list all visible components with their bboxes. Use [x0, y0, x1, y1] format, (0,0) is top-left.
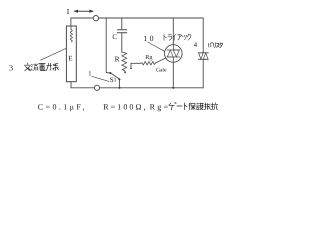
- svg-text:1: 1: [143, 34, 147, 43]
- ッ: [183, 35, 187, 40]
- switch S blade: [111, 73, 119, 78]
- wire top-left from source to terminal A: [71, 18, 93, 26]
- svg-text:1: 1: [114, 78, 117, 84]
- switch S contact dot left: [109, 72, 111, 74]
- 保: [189, 103, 196, 110]
- triac internal symbol: [167, 45, 180, 62]
- イ: [173, 34, 176, 40]
- wire right vertical lower: [202, 60, 204, 88]
- junction triac-bottom wire: [172, 87, 174, 89]
- resistor Rg zigzag: [141, 62, 156, 65]
- node R bottom dot: [124, 72, 126, 74]
- バ: [208, 42, 213, 47]
- gate terminal stub: [131, 63, 141, 67]
- current arrow I: [75, 10, 93, 12]
- ゲ: [169, 103, 176, 110]
- wire switch to bottom: [118, 80, 120, 88]
- 抵: [205, 103, 211, 110]
- ー: [177, 105, 182, 107]
- 系: [53, 63, 59, 70]
- タ: [220, 43, 223, 48]
- switch S contact dot right: [118, 78, 120, 80]
- リ: [214, 43, 216, 48]
- triac gate lead: [156, 58, 166, 63]
- junction switch-bottom wire: [118, 87, 120, 89]
- pointer line label 3 to source: [41, 48, 67, 60]
- ク: [187, 34, 191, 40]
- svg-text:Rg: Rg: [145, 54, 152, 61]
- pointer line label 1 to switch: [92, 76, 109, 81]
- wire triac branch top: [172, 18, 174, 45]
- wire capacitor to resistor: [122, 33, 123, 53]
- wire triac bottom: [172, 62, 174, 88]
- svg-text:I: I: [67, 7, 70, 16]
- svg-text:R: R: [115, 54, 120, 63]
- ac source box: [66, 26, 76, 82]
- svg-text:E: E: [68, 54, 72, 62]
- ト: [184, 103, 187, 110]
- svg-text:R=100Ω,: R=100Ω,: [103, 103, 148, 112]
- 流: [31, 64, 38, 70]
- varistor symbol: [198, 53, 208, 60]
- svg-text:1: 1: [88, 70, 91, 77]
- svg-text:C: C: [112, 33, 117, 41]
- switch S contact nub: [106, 72, 109, 74]
- svg-text:3: 3: [9, 64, 13, 73]
- wire bottom main run: [100, 87, 204, 89]
- 電: [39, 63, 46, 70]
- node B terminal circle: [94, 85, 99, 90]
- svg-text:0: 0: [150, 34, 154, 43]
- wire bottom left from source: [71, 82, 94, 88]
- 力: [46, 63, 51, 70]
- svg-text:C=0.1μF,: C=0.1μF,: [38, 103, 87, 112]
- svg-text:Gate: Gate: [156, 68, 167, 74]
- triac U1 circle: [165, 45, 183, 63]
- ア: [178, 35, 182, 40]
- pointer line label 10 to triac: [148, 42, 165, 51]
- ト: [164, 34, 166, 40]
- 護: [197, 103, 204, 110]
- svg-text:4: 4: [194, 41, 198, 49]
- resistor R zigzag: [122, 52, 127, 72]
- wire switch branch vertical: [105, 18, 107, 72]
- capacitor C plates: [117, 30, 127, 33]
- wire top main run: [99, 17, 204, 19]
- ラ: [168, 35, 172, 41]
- wire C-R branch vertical: [121, 18, 123, 30]
- source internal impedance coil: [70, 26, 72, 42]
- ス: [216, 43, 219, 47]
- wire right vertical upper: [202, 18, 204, 53]
- node A terminal circle: [93, 16, 98, 21]
- gate terminal dot: [130, 67, 132, 69]
- svg-text:Rg=: Rg=: [150, 103, 171, 112]
- 抗: [211, 103, 218, 110]
- 交: [24, 63, 31, 71]
